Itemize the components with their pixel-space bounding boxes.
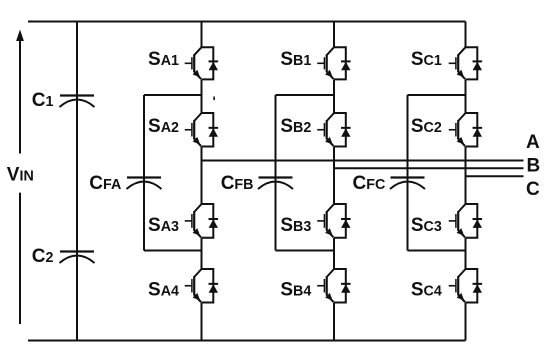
svg-text:C: C bbox=[526, 179, 540, 200]
svg-text:SB3: SB3 bbox=[280, 215, 311, 236]
svg-text:B: B bbox=[527, 156, 541, 177]
capacitor CFC symbol bbox=[390, 178, 425, 190]
capacitor C2 symbol bbox=[60, 252, 95, 264]
svg-text:SC1: SC1 bbox=[411, 49, 442, 70]
transistor SA1 (IGBT with antiparallel diode) bbox=[185, 47, 218, 79]
wire: top DC rail bbox=[28, 21, 466, 23]
wire: output phase B bbox=[334, 167, 524, 169]
wire: phase B column segments bbox=[333, 22, 335, 341]
svg-text:VIN: VIN bbox=[7, 164, 34, 185]
wire: flying capacitor branch phase C bbox=[408, 95, 466, 251]
transistor SC3 (IGBT with antiparallel diode) bbox=[449, 204, 482, 238]
svg-text:SB2: SB2 bbox=[280, 116, 311, 137]
transistor SB4 (IGBT with antiparallel diode) bbox=[317, 269, 350, 303]
svg-text:SC2: SC2 bbox=[411, 116, 442, 137]
svg-text:A: A bbox=[526, 132, 540, 153]
svg-text:CFA: CFA bbox=[89, 173, 121, 194]
transistor SB1 (IGBT with antiparallel diode) bbox=[317, 47, 350, 79]
svg-text:SA3: SA3 bbox=[148, 215, 179, 236]
wire: bottom DC rail bbox=[28, 340, 466, 342]
svg-text:SA2: SA2 bbox=[148, 116, 179, 137]
junction artifact dot bbox=[213, 97, 215, 101]
transistor SB2 (IGBT with antiparallel diode) bbox=[317, 113, 350, 147]
wire: input capacitor leg bbox=[76, 22, 78, 341]
svg-text:CFC: CFC bbox=[353, 173, 386, 194]
svg-text:C2: C2 bbox=[32, 246, 54, 267]
wire: output phase A bbox=[202, 160, 524, 162]
capacitor CFA symbol bbox=[127, 178, 162, 190]
wire: flying capacitor branch phase B bbox=[276, 95, 335, 251]
wire: phase C column segments bbox=[465, 22, 467, 341]
svg-text:SB1: SB1 bbox=[280, 49, 311, 70]
transistor SC4 (IGBT with antiparallel diode) bbox=[449, 269, 482, 303]
transistor SA4 (IGBT with antiparallel diode) bbox=[185, 269, 218, 303]
transistor SC1 (IGBT with antiparallel diode) bbox=[449, 47, 482, 79]
svg-text:SC4: SC4 bbox=[411, 280, 442, 301]
Vin annotation arrow bbox=[16, 30, 24, 325]
transistor SB3 (IGBT with antiparallel diode) bbox=[317, 204, 350, 238]
transistor SA2 (IGBT with antiparallel diode) bbox=[185, 113, 218, 147]
svg-text:C1: C1 bbox=[32, 90, 54, 111]
svg-text:CFB: CFB bbox=[221, 173, 254, 194]
transistor SA3 (IGBT with antiparallel diode) bbox=[185, 204, 218, 238]
svg-text:SA4: SA4 bbox=[148, 280, 179, 301]
capacitor CFB symbol bbox=[258, 178, 293, 190]
svg-text:SA1: SA1 bbox=[148, 49, 179, 70]
wire: flying capacitor branch phase A bbox=[144, 95, 202, 251]
svg-text:SB4: SB4 bbox=[280, 280, 311, 301]
wire: phase A column segments bbox=[201, 22, 203, 341]
svg-text:SC3: SC3 bbox=[411, 215, 442, 236]
transistor SC2 (IGBT with antiparallel diode) bbox=[449, 113, 482, 147]
wire: output phase C bbox=[466, 175, 524, 177]
capacitor C1 symbol bbox=[60, 96, 95, 108]
